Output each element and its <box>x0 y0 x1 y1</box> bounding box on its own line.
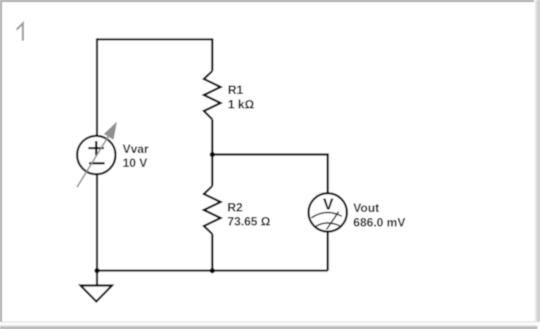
wire R2 bottom lead <box>211 234 213 271</box>
wire ground stem <box>96 271 98 286</box>
wire bottom horizontal <box>97 270 328 272</box>
wire node to voltmeter top <box>212 155 327 194</box>
wire source bottom lead <box>96 174 98 271</box>
wire R1 top lead <box>211 38 213 71</box>
resistor R2 <box>204 186 221 234</box>
wire R1 bottom lead to node <box>211 119 213 154</box>
junction dot bottom R2 <box>210 268 215 273</box>
svg-text:10 V: 10 V <box>123 156 148 170</box>
wire voltmeter bottom lead <box>327 232 329 271</box>
node junction dot at R1/R2 <box>210 152 215 157</box>
svg-text:73.65 Ω: 73.65 Ω <box>227 215 270 229</box>
svg-text:V: V <box>323 196 334 213</box>
svg-text:R1: R1 <box>228 83 244 97</box>
resistor R1 <box>204 71 221 119</box>
svg-text:R2: R2 <box>227 200 243 214</box>
svg-text:1 kΩ: 1 kΩ <box>228 98 255 112</box>
wire left vertical (source top lead) <box>96 38 98 136</box>
variable-source arrow <box>77 122 117 188</box>
svg-text:Vout: Vout <box>353 201 379 215</box>
wire R2 top lead <box>211 155 213 187</box>
voltmeter Vout <box>309 193 347 231</box>
page number 1 <box>17 23 23 40</box>
wire top horizontal <box>97 38 212 40</box>
ground <box>81 286 113 302</box>
svg-text:Vvar: Vvar <box>123 142 149 156</box>
voltage source Vvar <box>77 136 115 174</box>
svg-text:686.0 mV: 686.0 mV <box>353 216 405 230</box>
junction dot bottom left <box>94 268 99 273</box>
